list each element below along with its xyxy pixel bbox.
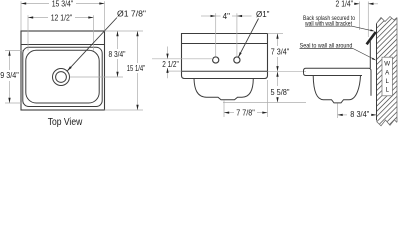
dimension 9 3/4 (left side) — [5, 51, 23, 104]
dimension 15 3/4 (top) — [21, 1, 105, 30]
svg-text:4": 4" — [223, 12, 230, 21]
svg-text:9 3/4": 9 3/4" — [0, 71, 19, 80]
svg-text:L: L — [385, 78, 389, 85]
back ledge line — [21, 44, 105, 46]
svg-text:15 1/4": 15 1/4" — [127, 64, 146, 73]
faucet hole left — [213, 57, 219, 63]
sink outer rim rectangle (top view) — [21, 31, 105, 110]
dimension 5 5/8 (counter to bowl bottom) — [223, 72, 306, 103]
svg-text:Ø1": Ø1" — [256, 10, 270, 19]
svg-text:L: L — [385, 87, 389, 94]
svg-text:7 7/8": 7 7/8" — [236, 108, 255, 117]
drain inner circle — [56, 72, 67, 83]
svg-text:Ø1 7/8": Ø1 7/8" — [117, 10, 146, 19]
backsplash (side view) — [367, 32, 376, 68]
svg-text:15 3/4": 15 3/4" — [52, 0, 74, 8]
svg-text:12 1/2": 12 1/2" — [51, 13, 73, 22]
dimension 7 7/8 (bowl width, below front view) — [224, 80, 268, 117]
wall face line — [376, 24, 378, 121]
dimension 8 3/4 (bottom of side view) — [338, 104, 377, 119]
counter bar bottom edge (side view) — [304, 73, 363, 75]
backsplash bottom line — [182, 43, 268, 45]
dimension 7 3/4 (right of front view) — [268, 34, 307, 72]
sink body outline (front view) — [182, 34, 268, 79]
svg-text:W: W — [384, 61, 390, 68]
dimension 15 1/4 (right of top view, full height) — [105, 31, 144, 110]
bowl (front view) — [194, 79, 253, 100]
counter bottom line — [182, 70, 268, 72]
dimension 12 1/2 — [28, 15, 94, 50]
bowl (side view) — [313, 76, 360, 103]
backsplash front face — [369, 40, 371, 68]
dimension 2 1/4 (top of side view) — [354, 2, 378, 38]
faucet hole right — [234, 57, 240, 63]
svg-text:2 1/2": 2 1/2" — [162, 60, 179, 69]
dimension 8 3/4 (right of top view, to drain center) — [70, 31, 143, 77]
bowl inner edge (inner rounded rect) — [26, 50, 99, 103]
svg-text:7 3/4": 7 3/4" — [271, 48, 290, 57]
dimension 2 1/2 (hole line to counter) — [152, 47, 213, 79]
svg-text:8 3/4": 8 3/4" — [109, 50, 126, 59]
wall hatch — [370, 0, 400, 175]
dimension 4 (between faucet holes) — [201, 13, 252, 56]
leader and label diameter 1 (faucet hole) — [238, 19, 258, 58]
svg-text:8 3/4": 8 3/4" — [350, 110, 369, 119]
counter bar (side view) — [304, 68, 372, 96]
svg-text:5 5/8": 5 5/8" — [271, 88, 290, 97]
svg-text:Top View: Top View — [48, 116, 83, 128]
leader and label diameter 1 7/8 (drain) — [67, 18, 117, 71]
backsplash angled top (thick) — [367, 32, 376, 44]
bowl rim (outer rounded rect) — [23, 47, 102, 106]
svg-text:2 1/4": 2 1/4" — [336, 0, 354, 8]
wall jagged outline — [377, 17, 398, 24]
drain outer circle — [53, 69, 70, 86]
WALL label box — [382, 57, 392, 96]
